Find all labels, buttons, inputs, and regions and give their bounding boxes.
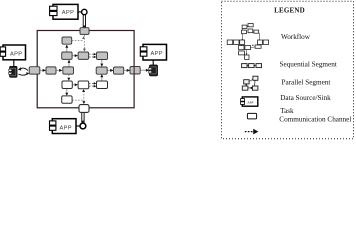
- task A (white): [62, 81, 72, 89]
- double dashed channel B to C: [89, 83, 95, 86]
- dashed channel D to E: [72, 99, 83, 101]
- legend communication channel icon: [245, 129, 259, 135]
- svg-text:APP: APP: [60, 126, 72, 132]
- svg-text:APP: APP: [151, 51, 163, 57]
- legend box: [222, 1, 354, 139]
- arrowhead into task T: [83, 26, 86, 29]
- wire app-right down: [152, 60, 154, 65]
- data source icon left: [9, 66, 17, 77]
- task sq1: [29, 67, 40, 74]
- port circle top: [82, 9, 87, 14]
- curved exchange arrows left: [18, 68, 28, 75]
- legend task icon: [247, 113, 256, 119]
- branch connector I to sq4: [101, 60, 103, 67]
- task H: [62, 52, 72, 59]
- task C (white): [97, 81, 108, 89]
- task sq2: [46, 67, 56, 74]
- dashed channel B to E: [83, 91, 85, 102]
- app box top (U-top): [50, 4, 78, 19]
- connector H to G: [72, 55, 77, 57]
- wire app-bottom to port: [76, 125, 80, 127]
- task sq3: [63, 67, 74, 74]
- data sink icon right: [149, 65, 158, 76]
- task B (white): [78, 81, 89, 89]
- legend parallel icon: [242, 76, 258, 90]
- svg-text:APP: APP: [10, 52, 22, 58]
- svg-text:Data Source/Sink: Data Source/Sink: [280, 94, 331, 102]
- dashed channel T to G: [83, 35, 85, 50]
- legend workflow mini icon: [227, 24, 268, 60]
- channel top (double line): [82, 15, 84, 28]
- main row connectors: [40, 69, 46, 71]
- wire app-top to port: [78, 11, 82, 13]
- task I: [97, 52, 108, 60]
- app box bottom: [50, 119, 77, 134]
- outer workflow box: [37, 31, 134, 108]
- branch connector H to F: [66, 45, 68, 52]
- channel bottom (double line): [81, 112, 83, 123]
- task T on top border: [80, 28, 89, 35]
- task E on bottom border (white): [79, 105, 89, 113]
- svg-text:Sequential Segment: Sequential Segment: [280, 60, 337, 68]
- branch connector sq3 to H: [68, 60, 70, 67]
- dashed channel sq3 to A: [68, 74, 70, 79]
- svg-text:Task: Task: [280, 107, 294, 115]
- app box left: [0, 45, 25, 60]
- svg-text:Communication Channel: Communication Channel: [279, 115, 351, 123]
- legend sequential icon: [242, 64, 262, 68]
- connector A to D: [66, 89, 68, 95]
- double dashed channel G to I: [89, 54, 95, 57]
- svg-text:APP: APP: [62, 10, 74, 16]
- task sq6: [130, 67, 140, 75]
- wire app-left down: [13, 60, 15, 67]
- task sq5: [114, 67, 124, 74]
- border over sq6: [133, 67, 135, 75]
- svg-text:APP: APP: [247, 100, 253, 104]
- svg-text:Workflow: Workflow: [281, 33, 311, 41]
- app box right: [140, 44, 166, 60]
- port circle bottom: [80, 123, 86, 129]
- task F: [62, 37, 72, 44]
- arrowhead into port bottom: [81, 121, 84, 124]
- task sq4: [96, 67, 107, 74]
- branch connector C to sq4: [101, 74, 103, 80]
- dashed channel F to T: [72, 39, 84, 41]
- legend data source/sink icon: [241, 97, 258, 106]
- task D (white): [62, 96, 72, 103]
- svg-text:Parallel Segment: Parallel Segment: [282, 79, 331, 87]
- task G: [78, 52, 89, 59]
- connector A to B: [72, 84, 77, 86]
- svg-text:LEGEND: LEGEND: [274, 6, 305, 14]
